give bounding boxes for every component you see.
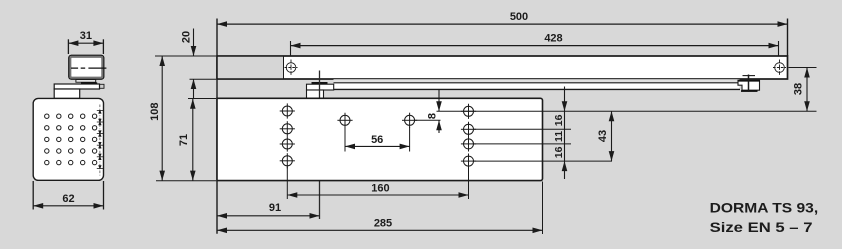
ext line body bottom left xyxy=(156,180,216,182)
spindle block lower xyxy=(307,90,324,99)
body centerline (dash-dot) xyxy=(71,67,107,69)
ext line rail top left xyxy=(155,55,216,57)
rail hidden left segment (gray) xyxy=(218,57,284,78)
strip under rail xyxy=(334,79,740,82)
plate edge micro dimension marks xyxy=(97,105,103,177)
dim 16/11/16 xyxy=(564,87,566,180)
svg-text:8: 8 xyxy=(427,113,439,119)
dim 8 xyxy=(438,90,440,112)
svg-text:56: 56 xyxy=(371,134,383,146)
svg-text:285: 285 xyxy=(374,218,392,230)
closer body xyxy=(217,98,543,180)
svg-text:20: 20 xyxy=(181,31,193,43)
svg-text:71: 71 xyxy=(178,134,190,146)
svg-text:91: 91 xyxy=(269,202,281,214)
dim 108 xyxy=(161,56,163,181)
svg-text:16: 16 xyxy=(553,114,565,126)
dim 500 line xyxy=(217,23,788,25)
dim 20 xyxy=(193,29,195,57)
dim 428 extension lines xyxy=(290,41,292,60)
spindle flange (black) xyxy=(312,82,328,84)
arm top edge xyxy=(334,82,741,84)
svg-text:62: 62 xyxy=(62,193,74,205)
left block xyxy=(54,89,79,98)
spindle block upper xyxy=(307,84,334,90)
svg-text:38: 38 xyxy=(793,83,805,95)
mounting bar (wide) xyxy=(54,84,99,89)
dim 91 xyxy=(217,215,320,217)
dim 31 extension lines xyxy=(68,39,103,54)
dim 160 xyxy=(287,194,468,196)
mounting plate face view xyxy=(33,98,103,180)
svg-text:DORMA TS 93,: DORMA TS 93, xyxy=(710,200,819,216)
svg-text:16: 16 xyxy=(553,146,565,158)
dim 56 extension lines xyxy=(344,127,346,152)
dim 160 extension lines xyxy=(286,167,288,200)
ext line rail bottom left xyxy=(190,78,217,80)
spindle collar strip xyxy=(76,80,96,83)
arm (white) xyxy=(334,83,740,90)
dim 31 arrows xyxy=(68,40,78,46)
dim 62 arrows xyxy=(33,203,43,209)
dim 38 xyxy=(806,68,808,112)
closer body side view xyxy=(69,55,104,79)
svg-text:31: 31 xyxy=(80,30,92,42)
dim 62 extension lines xyxy=(33,181,103,210)
dim 38 reference line xyxy=(789,67,817,69)
slider block right end xyxy=(738,75,761,92)
arm bottom edge xyxy=(334,88,741,90)
svg-text:Size EN 5 – 7: Size EN 5 – 7 xyxy=(710,219,813,235)
body holes: right column xyxy=(461,104,476,169)
leader lines right xyxy=(414,111,816,161)
slide rail xyxy=(217,56,788,79)
spindle black strip xyxy=(81,82,97,84)
svg-text:43: 43 xyxy=(597,130,609,142)
spindle centerline xyxy=(319,71,321,220)
dim 56 xyxy=(345,145,410,147)
plate hole grid 5x5 xyxy=(45,114,97,165)
dim 285 extension right xyxy=(542,182,544,235)
dim 285 xyxy=(217,229,543,231)
svg-text:108: 108 xyxy=(149,103,161,121)
rail fixing screw left xyxy=(285,60,298,76)
dim 428 line xyxy=(291,45,779,47)
svg-text:428: 428 xyxy=(544,33,562,45)
left main extension line x=217 xyxy=(216,19,218,234)
dim 43 xyxy=(611,111,613,161)
svg-text:11: 11 xyxy=(553,131,565,142)
body holes: left column xyxy=(280,103,295,168)
gray tab behind bar xyxy=(97,84,104,88)
dim 62 line xyxy=(33,205,103,207)
rail fixing screw right xyxy=(773,60,786,76)
svg-text:160: 160 xyxy=(371,182,389,194)
dim 71 xyxy=(192,99,194,181)
body holes: middle pair xyxy=(337,113,417,128)
right extension x=787.5 (500 dim) xyxy=(787,19,789,57)
dim 31 line xyxy=(68,42,103,44)
svg-text:500: 500 xyxy=(510,11,528,23)
ext line body top left xyxy=(188,98,216,100)
